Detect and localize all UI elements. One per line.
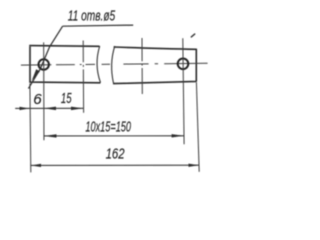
- stray tick mark top right: [191, 34, 194, 37]
- svg-text:6: 6: [33, 91, 42, 108]
- arrow dim 162 right: [189, 164, 199, 167]
- svg-text:10x15=150: 10x15=150: [85, 120, 131, 136]
- hole position centerline P2: [82, 41, 84, 113]
- centerline hole H1 (also extension line for dims): [43, 42, 45, 140]
- arrow dim 150 right: [172, 134, 184, 137]
- leader line to hole: [28, 26, 62, 88]
- arrow outside-left of dim 6: [20, 107, 30, 110]
- arrow dim 150 left: [44, 134, 57, 137]
- extension line right edge (for 162): [196, 82, 199, 172]
- break line right: [112, 46, 115, 83]
- svg-text:11 отв.ø5: 11 отв.ø5: [68, 9, 116, 25]
- leader arrowhead: [32, 69, 40, 81]
- svg-text:162: 162: [106, 146, 125, 163]
- extension line left edge (for 6 and 162): [29, 84, 32, 173]
- svg-text:15: 15: [61, 91, 72, 107]
- horizontal centerline: [21, 63, 208, 65]
- hole H11: [178, 59, 189, 70]
- arrow dim 162 left: [31, 164, 41, 167]
- hole H1: [39, 59, 49, 69]
- shared arrow at hole1 center (dim 6 right / dim 15 left): [44, 107, 56, 111]
- plate left fragment outline: [29, 45, 100, 83]
- centerline hole H11 (also extension line): [183, 38, 184, 144]
- dimension line 10x15=150: [44, 135, 184, 137]
- dimension line 6 and 15: [15, 107, 83, 109]
- hole position centerline P3: [141, 38, 143, 94]
- dimension line 162: [31, 164, 200, 166]
- leader shelf: [63, 25, 134, 26]
- break line left: [97, 46, 100, 83]
- arrow dim 15 right: [71, 107, 83, 111]
- plate right fragment outline: [113, 47, 196, 84]
